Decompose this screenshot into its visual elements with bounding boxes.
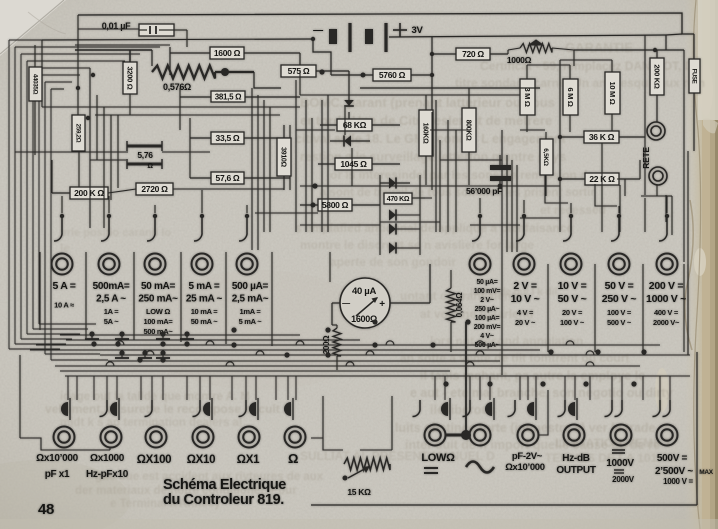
svg-text:50 V =: 50 V =: [605, 280, 634, 292]
svg-text:259,2Ω: 259,2Ω: [74, 124, 81, 143]
svg-text:—: —: [313, 25, 323, 36]
svg-text:Hz-dB: Hz-dB: [562, 453, 589, 464]
svg-text:1000 V ~: 1000 V ~: [646, 293, 686, 305]
svg-text:10 V ~: 10 V ~: [511, 293, 540, 305]
svg-text:470 KΩ: 470 KΩ: [387, 196, 410, 203]
svg-text:du Controleur 819.: du Controleur 819.: [163, 492, 284, 508]
svg-text:10 A ≈: 10 A ≈: [54, 301, 74, 310]
svg-text:2 V~: 2 V~: [480, 297, 494, 304]
svg-text:50 mA ~: 50 mA ~: [191, 317, 219, 326]
svg-text:5760 Ω: 5760 Ω: [379, 70, 406, 80]
svg-text:720 Ω: 720 Ω: [462, 49, 484, 59]
svg-text:57,6 Ω: 57,6 Ω: [216, 173, 240, 183]
svg-text:1mA =: 1mA =: [240, 307, 262, 316]
svg-text:ΩX100: ΩX100: [137, 454, 172, 466]
svg-text:e aut - ete mal branche, so: e aut - ete mal branche, son negotio ou …: [410, 386, 673, 400]
svg-text:2000V: 2000V: [612, 475, 635, 484]
svg-text:5A ~: 5A ~: [104, 317, 119, 326]
svg-text:575 Ω: 575 Ω: [288, 66, 310, 76]
svg-text:SULLIAT AL PRESENT MANUEL: SULLIAT AL PRESENT MANUEL D: [300, 449, 495, 463]
svg-text:OUTPUT: OUTPUT: [556, 465, 596, 476]
svg-text:6,5KΩ: 6,5KΩ: [542, 148, 549, 166]
svg-text:3V: 3V: [411, 25, 423, 36]
svg-text:3910Ω: 3910Ω: [279, 147, 286, 167]
svg-text:36 K Ω: 36 K Ω: [589, 132, 615, 142]
svg-text:100 V ~: 100 V ~: [560, 318, 585, 327]
svg-text:FUSE: FUSE: [690, 69, 696, 84]
svg-text:montre le discretit se n a: montre le discretit se n avisliere for l…: [300, 238, 534, 252]
svg-text:ΩX1: ΩX1: [237, 454, 260, 466]
svg-text:500 µA=: 500 µA=: [232, 281, 269, 292]
svg-text:pF-2V~: pF-2V~: [512, 451, 543, 462]
svg-text:3200 Ω: 3200 Ω: [125, 67, 134, 90]
svg-text:25 mA ~: 25 mA ~: [186, 294, 223, 305]
svg-text:Schéma Electrique: Schéma Electrique: [163, 477, 286, 493]
svg-text:LOWΩ: LOWΩ: [421, 452, 455, 464]
svg-text:68 KΩ: 68 KΩ: [343, 120, 367, 130]
svg-text:2’500V ~: 2’500V ~: [655, 466, 693, 477]
svg-text:50 V ~: 50 V ~: [558, 293, 587, 305]
svg-text:1045 Ω: 1045 Ω: [340, 159, 367, 169]
svg-text:381,5 Ω: 381,5 Ω: [215, 92, 242, 101]
svg-text:10 mA =: 10 mA =: [191, 307, 219, 316]
svg-text:200 V =: 200 V =: [649, 280, 684, 292]
svg-text:GARANTIE: GARANTIE: [565, 40, 633, 55]
svg-text:Ω: Ω: [288, 451, 298, 466]
svg-text:1000V: 1000V: [606, 458, 634, 469]
svg-text:44035Ω: 44035Ω: [31, 74, 38, 95]
svg-text:Ωx10’000: Ωx10’000: [505, 462, 545, 473]
svg-text:10 M Ω: 10 M Ω: [608, 82, 617, 105]
svg-text:Ωx10’000: Ωx10’000: [36, 453, 79, 464]
svg-text:1600 Ω: 1600 Ω: [214, 48, 241, 58]
svg-text:48: 48: [38, 501, 54, 518]
svg-text:6 M Ω: 6 M Ω: [566, 87, 575, 106]
svg-text:MAX: MAX: [699, 469, 714, 476]
svg-text:56’000 pF: 56’000 pF: [466, 186, 502, 196]
svg-text:2,5 mA~: 2,5 mA~: [232, 294, 269, 305]
svg-text:250 µA~: 250 µA~: [475, 306, 500, 313]
svg-text:—: —: [342, 299, 350, 308]
svg-text:lors not second annulation: lors not second annulation: [430, 334, 583, 348]
svg-text:200 mV=: 200 mV=: [474, 324, 501, 331]
svg-text:+: +: [379, 299, 385, 310]
svg-text:Hz-pFx10: Hz-pFx10: [86, 469, 129, 480]
svg-text:100 V =: 100 V =: [607, 308, 632, 317]
svg-text:50 µA=: 50 µA=: [476, 279, 497, 286]
svg-text:33,5 Ω: 33,5 Ω: [216, 133, 240, 143]
svg-text:400 V =: 400 V =: [654, 308, 679, 317]
svg-text:50 mA=: 50 mA=: [141, 281, 176, 292]
svg-text:200 KΩ: 200 KΩ: [652, 64, 661, 89]
svg-text:2720 Ω: 2720 Ω: [141, 184, 168, 194]
svg-text:RETE: RETE: [641, 147, 651, 169]
svg-text:500 V ~: 500 V ~: [607, 318, 632, 327]
svg-text:5 A =: 5 A =: [52, 280, 75, 292]
svg-text:Ωx1000: Ωx1000: [90, 453, 125, 464]
svg-text:4 V~: 4 V~: [480, 333, 494, 340]
svg-text:0,576Ω: 0,576Ω: [163, 82, 191, 92]
svg-text:100 µA=: 100 µA=: [475, 315, 500, 322]
svg-text:250 V ~: 250 V ~: [602, 293, 637, 305]
svg-text:20 V ~: 20 V ~: [515, 318, 536, 327]
svg-text:15 KΩ: 15 KΩ: [347, 487, 371, 497]
svg-text:4 V =: 4 V =: [517, 308, 534, 317]
svg-text:a sont de travail de tous: a sont de travail de tous sommes les pri…: [320, 187, 595, 199]
svg-text:an sotte a vente de tilt: an sotte a vente de tilt tomtrent ou cou…: [400, 351, 629, 365]
svg-text:1A =: 1A =: [104, 307, 119, 316]
svg-text:100 mV=: 100 mV=: [474, 288, 501, 295]
svg-text:2000 V~: 2000 V~: [653, 318, 680, 327]
svg-text:500V =: 500V =: [657, 453, 688, 464]
svg-text:2,5 A ~: 2,5 A ~: [96, 294, 126, 305]
svg-text:s emplafied anticonal de ap: s emplafied anticonal de applique a bien…: [295, 221, 573, 235]
svg-text:BOMC. parant (prenant latte: BOMC. parant (prenant latterieur ou vous: [300, 95, 555, 110]
svg-text:40 µA: 40 µA: [352, 286, 376, 297]
svg-text:1000Ω: 1000Ω: [507, 55, 532, 65]
svg-text:5,76: 5,76: [137, 150, 153, 160]
svg-text:1000 V =: 1000 V =: [663, 477, 693, 486]
svg-text:3 M Ω: 3 M Ω: [523, 87, 532, 106]
svg-text:250 mA~: 250 mA~: [138, 294, 178, 305]
svg-text:ΩX10: ΩX10: [187, 454, 215, 466]
svg-text:10 V =: 10 V =: [558, 280, 587, 292]
svg-text:20 V =: 20 V =: [562, 308, 583, 317]
svg-text:5 mA =: 5 mA =: [189, 281, 220, 292]
svg-text:Ω: Ω: [147, 163, 153, 170]
svg-text:2 V =: 2 V =: [513, 280, 536, 292]
svg-text:200 K Ω: 200 K Ω: [74, 188, 104, 198]
svg-text:100 mA=: 100 mA=: [144, 317, 174, 326]
svg-text:5 mA ~: 5 mA ~: [239, 317, 263, 326]
svg-text:5800 Ω: 5800 Ω: [322, 200, 349, 210]
svg-text:160KΩ: 160KΩ: [421, 123, 428, 145]
svg-text:LOW Ω: LOW Ω: [146, 307, 170, 316]
svg-text:aperte de son gondoir: aperte de son gondoir: [330, 255, 456, 269]
svg-text:et recessed: et recessed: [540, 203, 606, 217]
svg-text:pF x1: pF x1: [45, 469, 70, 480]
svg-text:500mA=: 500mA=: [93, 281, 130, 292]
svg-text:0,064Ω: 0,064Ω: [455, 292, 464, 318]
